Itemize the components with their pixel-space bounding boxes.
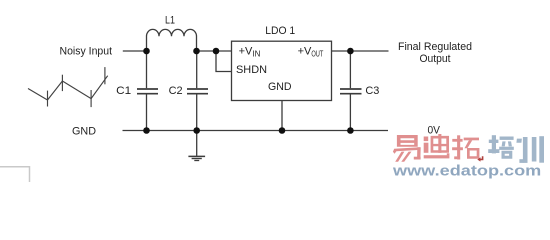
ground rail wire [123,130,389,132]
svg-text:+VIN: +VIN [239,45,261,58]
svg-text:www.edatop.com: www.edatop.com [392,163,542,179]
ground symbol [188,131,205,161]
regulator LDO1 box [232,41,332,100]
watermark char 训 (blue) [516,136,544,163]
svg-text:+VOUT: +VOUT [298,45,324,58]
node A junction dot [143,48,150,55]
wire: node B to +VIN pin [197,50,232,52]
watermark char 培 (blue) [488,135,514,159]
wire: +VOUT pin to output [332,50,389,52]
wire: U1 GND pin to ground rail [281,101,283,131]
node H junction dot (C3 to rail) [347,127,354,134]
svg-text:SHDN: SHDN [236,64,267,76]
capacitor C2 [187,51,208,131]
svg-text:Output: Output [420,53,451,65]
watermark char 迪 (pink) [424,134,450,158]
inductor L1 [147,29,197,51]
watermark char 拓 (pink) [452,135,479,159]
svg-text:GND: GND [72,125,96,137]
svg-text:GND: GND [268,81,292,93]
watermark enter-arrow mark (dark red) [477,156,482,161]
svg-text:L1: L1 [165,15,175,27]
node C junction dot (SHDN tap) [213,48,220,55]
node D junction dot (output) [347,48,354,55]
noisy waveform icon [28,67,108,107]
svg-text:LDO 1: LDO 1 [265,25,295,37]
node B junction dot [193,48,200,55]
svg-text:Final Regulated: Final Regulated [398,41,472,53]
wire: noisy input to node A [123,50,147,52]
node G junction dot (U1 GND to rail) [279,127,286,134]
capacitor C3 [340,51,362,131]
svg-text:C3: C3 [365,85,379,97]
svg-text:Noisy Input: Noisy Input [60,46,113,58]
wire: SHDN tap from node C [216,51,232,72]
page corner mark [0,167,30,182]
svg-text:C1: C1 [116,85,131,97]
node E junction dot (C1 to rail) [143,127,150,134]
node F junction dot (C2/ground to rail) [193,127,200,134]
watermark char 易 (pink) [393,135,421,162]
capacitor C1 [137,51,158,131]
svg-text:C2: C2 [169,85,183,97]
